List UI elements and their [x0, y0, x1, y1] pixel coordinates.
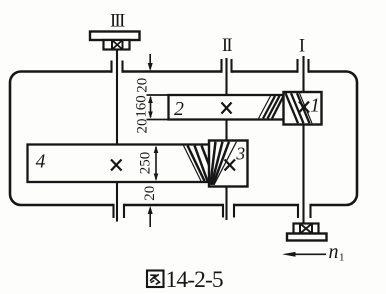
- gear 3 body: [209, 141, 248, 187]
- gear 3 helical hatch: [210, 142, 236, 185]
- node: shaft I on gear 1 (x mark): [299, 102, 309, 113]
- svg-text:II: II: [222, 36, 233, 56]
- svg-text:20: 20: [142, 186, 158, 201]
- shaft II: [225, 58, 227, 220]
- svg-text:3: 3: [235, 144, 245, 164]
- bearing ticks shaft II top: [222, 59, 232, 73]
- coupling/bearing unit on shaft I (bottom): bearing block with X: [294, 224, 319, 234]
- caption glyph 图 (drawn): [147, 271, 164, 288]
- svg-text:20: 20: [134, 119, 150, 134]
- svg-text:I: I: [299, 37, 305, 57]
- gear 2 helical hatch: [259, 96, 284, 119]
- bearing ticks shaft I top: [298, 59, 309, 73]
- bearing ticks shaft III bottom: [114, 204, 125, 218]
- dimension extension line (gear 2 bottom): [147, 119, 171, 121]
- svg-text:III: III: [110, 12, 125, 32]
- dimension line 250 (with arrows): [155, 147, 157, 180]
- svg-text:250: 250: [137, 152, 153, 175]
- shaft III: [116, 50, 118, 222]
- wall gap shaft II top: [222, 68, 232, 75]
- bearing ticks shaft I bottom: [298, 204, 311, 218]
- svg-text:1: 1: [339, 252, 345, 264]
- wall gap shaft III bottom: [113, 202, 124, 209]
- wall gap shaft I top: [298, 68, 309, 75]
- svg-text:14-2-5: 14-2-5: [166, 267, 223, 293]
- svg-text:160: 160: [133, 95, 149, 118]
- gear 1 body: [284, 92, 322, 125]
- svg-text:20: 20: [134, 78, 150, 93]
- bearing ticks shaft II bottom: [223, 204, 234, 218]
- wall gap shaft III top: [112, 68, 123, 75]
- dimension arrow at housing bottom: [149, 209, 151, 227]
- dimension extension line (gear 2 top): [147, 94, 171, 96]
- housing (gearbox case outline): [10, 72, 357, 206]
- svg-text:2: 2: [174, 99, 184, 120]
- coupling/bearing unit on shaft III (top): bearing block with X: [104, 40, 130, 50]
- gear 4 body: [28, 145, 211, 183]
- dimension arrow at housing top: [149, 54, 151, 68]
- node: shaft II on gear 2 (x mark): [222, 103, 232, 114]
- wall gap shaft II bottom: [223, 202, 235, 209]
- coupling/bearing unit on shaft I (bottom): flange plate: [287, 234, 327, 241]
- gear 4 helical hatch: [184, 146, 210, 182]
- shaft I: [302, 56, 304, 224]
- node: shaft III on gear 4 (x mark): [111, 160, 122, 171]
- arrow n1 (input rotation): [292, 253, 326, 255]
- node: shaft II on gear 3 (x mark): [225, 160, 236, 171]
- dimension line 160 (with arrows): [150, 97, 152, 117]
- svg-text:4: 4: [36, 152, 46, 173]
- coupling/bearing unit on shaft III (top): flange plate: [90, 32, 140, 41]
- bearing ticks shaft III top: [112, 61, 123, 73]
- gear 1 helical hatch: [286, 93, 313, 123]
- wall gap shaft I bottom: [298, 202, 312, 209]
- gear 2 body: [169, 95, 285, 120]
- svg-text:1: 1: [310, 96, 320, 117]
- svg-text:n: n: [329, 241, 339, 263]
